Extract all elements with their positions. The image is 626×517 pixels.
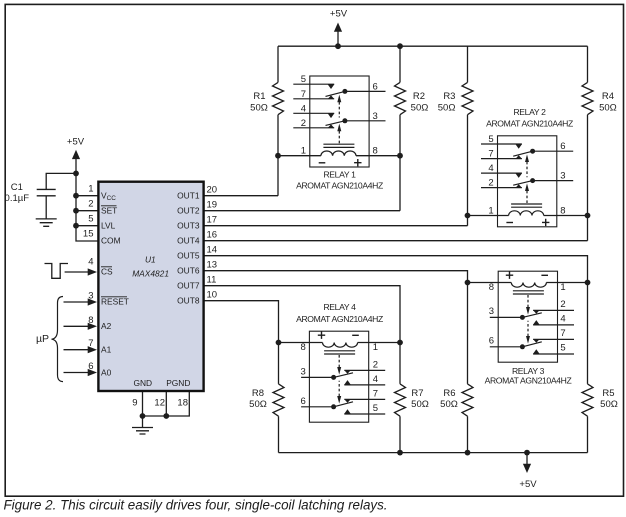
svg-text:LVL: LVL: [101, 221, 116, 231]
node R2 / relay1 pin8 / OUT2: [397, 153, 403, 159]
svg-text:5: 5: [488, 134, 493, 145]
svg-text:14: 14: [207, 245, 218, 256]
wire relay2 pin8: [544, 215, 588, 217]
svg-text:12: 12: [154, 398, 165, 409]
svg-text:8: 8: [88, 315, 93, 326]
node +5V / pin5: [73, 223, 79, 229]
wire relay4 pin3 and pin6 stubs: [301, 377, 334, 406]
svg-text:15: 15: [83, 229, 94, 240]
svg-text:+5V: +5V: [519, 479, 537, 490]
svg-text:C1: C1: [11, 182, 23, 193]
U1 pin labels: [101, 191, 200, 389]
svg-text:2: 2: [373, 359, 378, 370]
label relay1 coil minus: [319, 162, 326, 164]
brace uP: [52, 297, 64, 382]
svg-text:6: 6: [301, 396, 306, 407]
svg-text:A0: A0: [101, 367, 112, 377]
resistor R1: [273, 46, 284, 196]
svg-text:2: 2: [560, 299, 565, 310]
node R5 / relay3 pin1 / OUT5: [585, 280, 591, 286]
svg-text:R6: R6: [443, 388, 455, 399]
svg-text:7: 7: [488, 149, 493, 160]
ground IC: [132, 428, 153, 435]
wire relay1 pin6 and pin3 stubs: [345, 91, 386, 120]
svg-text:50Ω: 50Ω: [440, 399, 458, 410]
node top rail / R2 junction: [397, 43, 403, 49]
svg-text:8: 8: [373, 146, 378, 157]
wire LVL pin5: [76, 225, 98, 227]
wire OUT6: [204, 271, 468, 283]
wire PGND pin18 stub: [143, 391, 190, 416]
svg-text:50Ω: 50Ω: [249, 399, 267, 410]
svg-text:11: 11: [207, 275, 217, 286]
resistor R7: [395, 343, 406, 453]
resistor R5: [582, 283, 593, 453]
svg-text:1: 1: [88, 184, 93, 195]
svg-text:7: 7: [301, 89, 306, 100]
relay 4 labels: [296, 302, 383, 414]
svg-text:50Ω: 50Ω: [438, 103, 456, 114]
relay 1 internals: [293, 76, 369, 167]
svg-text:3: 3: [301, 366, 306, 377]
svg-text:AROMAT AGN210A4HZ: AROMAT AGN210A4HZ: [296, 180, 383, 190]
+5V top supply: [337, 31, 339, 47]
node bottom rail / R6: [465, 450, 471, 456]
svg-text:RELAY 4: RELAY 4: [323, 302, 356, 312]
relay 3 labels: [485, 272, 572, 386]
wire top +5V rail: [278, 45, 588, 47]
resistor R3: [462, 46, 473, 226]
relay 3 internals: [498, 271, 574, 362]
svg-text:18: 18: [177, 398, 188, 409]
relay 4 internals: [309, 331, 385, 422]
svg-text:A2: A2: [101, 321, 112, 331]
svg-text:A1: A1: [101, 345, 112, 355]
wire relay3 pin8: [468, 282, 512, 284]
svg-text:5: 5: [301, 74, 306, 85]
node bottom rail / R7: [397, 450, 403, 456]
pulse waveform at CS: [45, 264, 69, 279]
relay 1 labels: [296, 74, 383, 190]
svg-text:OUT3: OUT3: [177, 221, 200, 231]
svg-text:R8: R8: [252, 388, 264, 399]
wire OUT4: [204, 240, 588, 242]
resistor R6: [462, 283, 473, 453]
IC U1 MAX4821 body: [98, 182, 203, 391]
svg-text:OUT5: OUT5: [177, 251, 200, 261]
wire gnd bus to ground: [142, 416, 144, 428]
svg-text:3: 3: [373, 111, 378, 122]
label relay1 coil plus: [354, 159, 361, 166]
+5V left supply: [76, 158, 98, 242]
wire GND pin12 stub: [165, 391, 167, 416]
svg-text:OUT4: OUT4: [177, 236, 200, 246]
svg-text:5: 5: [88, 214, 93, 225]
svg-text:RESET: RESET: [101, 297, 129, 307]
svg-text:3: 3: [88, 291, 93, 302]
svg-text:R7: R7: [411, 388, 423, 399]
wire GND pin9 stub: [142, 391, 144, 416]
wire relay4 pin1: [358, 342, 400, 344]
label relay2 coil plus: [542, 219, 549, 226]
svg-text:4: 4: [88, 256, 93, 267]
svg-text:1: 1: [488, 206, 493, 217]
wire VCC pin1: [76, 195, 98, 197]
svg-text:5: 5: [560, 343, 565, 354]
svg-text:+5V: +5V: [330, 9, 348, 20]
svg-text:OUT1: OUT1: [177, 191, 200, 201]
svg-text:6: 6: [373, 81, 378, 92]
wire OUT7: [204, 286, 400, 343]
label relay3 coil plus: [506, 272, 513, 279]
svg-text:1: 1: [301, 146, 306, 157]
svg-text:10: 10: [207, 290, 218, 301]
svg-text:RELAY 3: RELAY 3: [512, 366, 545, 376]
svg-text:PGND: PGND: [166, 378, 190, 388]
node R6 / relay3 pin8 / OUT6: [465, 280, 471, 286]
node gnd bus pin12: [163, 413, 169, 419]
relay 2 internals: [481, 136, 557, 227]
svg-text:MAX4821: MAX4821: [132, 268, 169, 278]
wire CS arrow: [65, 271, 88, 273]
node R1 / relay1 pin1 / OUT1: [275, 153, 281, 159]
wire OUT8: [204, 301, 279, 343]
node +5V / pin1: [73, 193, 79, 199]
svg-text:OUT2: OUT2: [177, 206, 200, 216]
resistor R4: [582, 46, 593, 241]
svg-text:SET: SET: [101, 206, 117, 216]
svg-text:17: 17: [207, 215, 218, 226]
node R3 / relay2 pin1 / OUT3: [465, 213, 471, 219]
resistor R8: [273, 343, 284, 453]
svg-text:OUT7: OUT7: [177, 281, 200, 291]
node bottom rail / +5V: [524, 450, 530, 456]
svg-text:8: 8: [301, 342, 306, 353]
wire relay1 pin1: [278, 155, 321, 157]
wire relay4 pin8: [279, 342, 323, 344]
svg-text:3: 3: [489, 306, 494, 317]
svg-text:COM: COM: [101, 236, 121, 246]
node R7 / relay4 pin1 / OUT7: [397, 340, 403, 346]
node R4 / relay2 pin8 / OUT4: [585, 213, 591, 219]
svg-text:2: 2: [88, 199, 93, 210]
label relay4 coil plus: [318, 332, 325, 339]
wire relay2 pin1: [468, 215, 509, 217]
node R8 / relay4 pin8 / OUT8: [276, 340, 282, 346]
svg-text:6: 6: [560, 141, 565, 152]
svg-text:R1: R1: [253, 91, 265, 102]
svg-text:7: 7: [88, 338, 93, 349]
svg-text:R2: R2: [413, 91, 425, 102]
svg-text:50Ω: 50Ω: [250, 103, 268, 114]
svg-text:13: 13: [207, 260, 218, 271]
svg-text:+5V: +5V: [67, 137, 85, 148]
svg-text:4: 4: [301, 103, 306, 114]
svg-text:R3: R3: [443, 91, 455, 102]
svg-text:7: 7: [560, 328, 565, 339]
svg-text:50Ω: 50Ω: [411, 399, 429, 410]
node top rail / +5V junction: [335, 43, 341, 49]
svg-text:OUT8: OUT8: [177, 296, 200, 306]
wire OUT3: [204, 225, 468, 227]
svg-text:2: 2: [301, 118, 306, 129]
label relay3 coil minus: [541, 274, 548, 276]
svg-text:8: 8: [489, 282, 494, 293]
svg-text:4: 4: [560, 313, 565, 324]
svg-text:9: 9: [132, 398, 137, 409]
wire OUT2: [204, 210, 400, 212]
svg-text:RELAY 2: RELAY 2: [513, 107, 546, 117]
svg-text:20: 20: [207, 185, 218, 196]
U1 pin numbers: [83, 184, 217, 409]
svg-text:AROMAT AGN210A4HZ: AROMAT AGN210A4HZ: [296, 314, 383, 324]
wire OUT5: [204, 256, 588, 283]
wire A0 arrow: [64, 372, 89, 374]
svg-text:OUT6: OUT6: [177, 266, 200, 276]
wire bottom +5V rail: [279, 452, 588, 454]
svg-text:R4: R4: [602, 91, 614, 102]
svg-text:3: 3: [560, 171, 565, 182]
wire relay3 pin1: [546, 282, 587, 284]
svg-text:7: 7: [373, 388, 378, 399]
svg-text:CS: CS: [101, 267, 113, 277]
svg-text:µP: µP: [36, 333, 49, 345]
svg-text:4: 4: [488, 163, 493, 174]
svg-text:1: 1: [373, 342, 378, 353]
wire relay3 pin3 and pin6 stubs: [490, 317, 523, 346]
svg-text:GND: GND: [133, 378, 152, 388]
svg-text:AROMAT AGN210A4HZ: AROMAT AGN210A4HZ: [485, 375, 572, 385]
svg-text:19: 19: [207, 200, 218, 211]
svg-text:5: 5: [373, 403, 378, 414]
wire A2 arrow: [64, 325, 89, 327]
wire relay1 pin8: [356, 155, 400, 157]
svg-text:R5: R5: [602, 388, 614, 399]
node +5V / pin2: [73, 208, 79, 214]
label relay4 coil minus: [352, 334, 359, 336]
svg-text:U1: U1: [145, 255, 156, 265]
svg-text:RELAY 1: RELAY 1: [323, 169, 356, 179]
ground C1: [36, 219, 57, 226]
svg-text:1: 1: [560, 282, 565, 293]
capacitor C1: [46, 173, 76, 189]
node +5V / C1 branch: [73, 171, 79, 177]
node gnd bus pin9: [140, 413, 146, 419]
resistor R2: [395, 46, 406, 211]
relay 2 labels: [486, 107, 573, 226]
label relay2 coil minus: [506, 222, 513, 224]
svg-text:0.1µF: 0.1µF: [5, 193, 30, 204]
svg-text:16: 16: [207, 230, 218, 241]
wire RESET arrow: [64, 301, 89, 303]
svg-text:6: 6: [489, 335, 494, 346]
+5V bottom supply: [526, 453, 528, 465]
svg-text:8: 8: [560, 206, 565, 217]
svg-text:50Ω: 50Ω: [600, 399, 618, 410]
wire relay2 pin6 and pin3 stubs: [533, 151, 574, 180]
svg-text:6: 6: [88, 361, 93, 372]
svg-text:Figure 2. This circuit easily: Figure 2. This circuit easily drives fou…: [4, 498, 388, 513]
svg-text:2: 2: [488, 178, 493, 189]
overlines for SET, CS, RESET: [101, 206, 127, 297]
wire OUT1: [204, 195, 278, 197]
svg-text:50Ω: 50Ω: [599, 103, 617, 114]
wire SET pin2: [76, 210, 98, 212]
svg-text:4: 4: [373, 374, 378, 385]
svg-text:50Ω: 50Ω: [411, 103, 429, 114]
svg-text:AROMAT AGN210A4HZ: AROMAT AGN210A4HZ: [486, 119, 573, 129]
wire A1 arrow: [64, 349, 89, 351]
